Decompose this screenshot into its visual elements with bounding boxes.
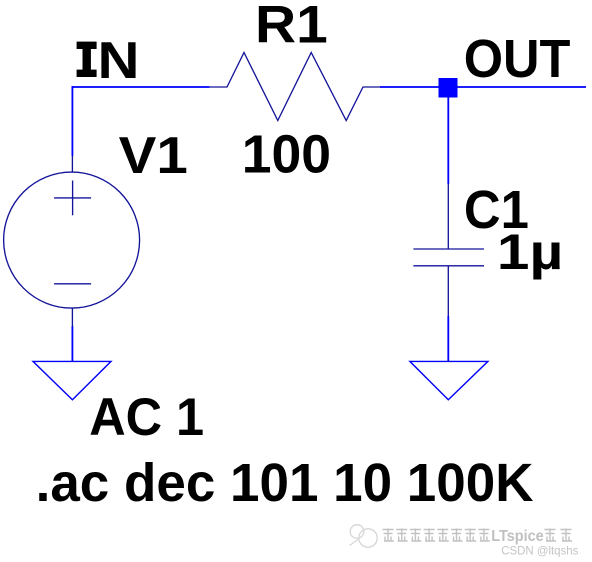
svg-text:100: 100 <box>242 125 331 184</box>
svg-text:CSDN @ltqshs: CSDN @ltqshs <box>501 544 578 558</box>
svg-text:N: N <box>98 31 140 89</box>
svg-text:AC 1: AC 1 <box>89 388 204 447</box>
svg-text:1µ: 1µ <box>497 224 563 280</box>
svg-text:.ac dec 101 10 100K: .ac dec 101 10 100K <box>36 454 534 513</box>
svg-text:LTspice: LTspice <box>491 528 544 545</box>
svg-text:OUT: OUT <box>464 29 571 89</box>
svg-text:V1: V1 <box>119 126 188 184</box>
svg-text:R1: R1 <box>255 0 328 55</box>
